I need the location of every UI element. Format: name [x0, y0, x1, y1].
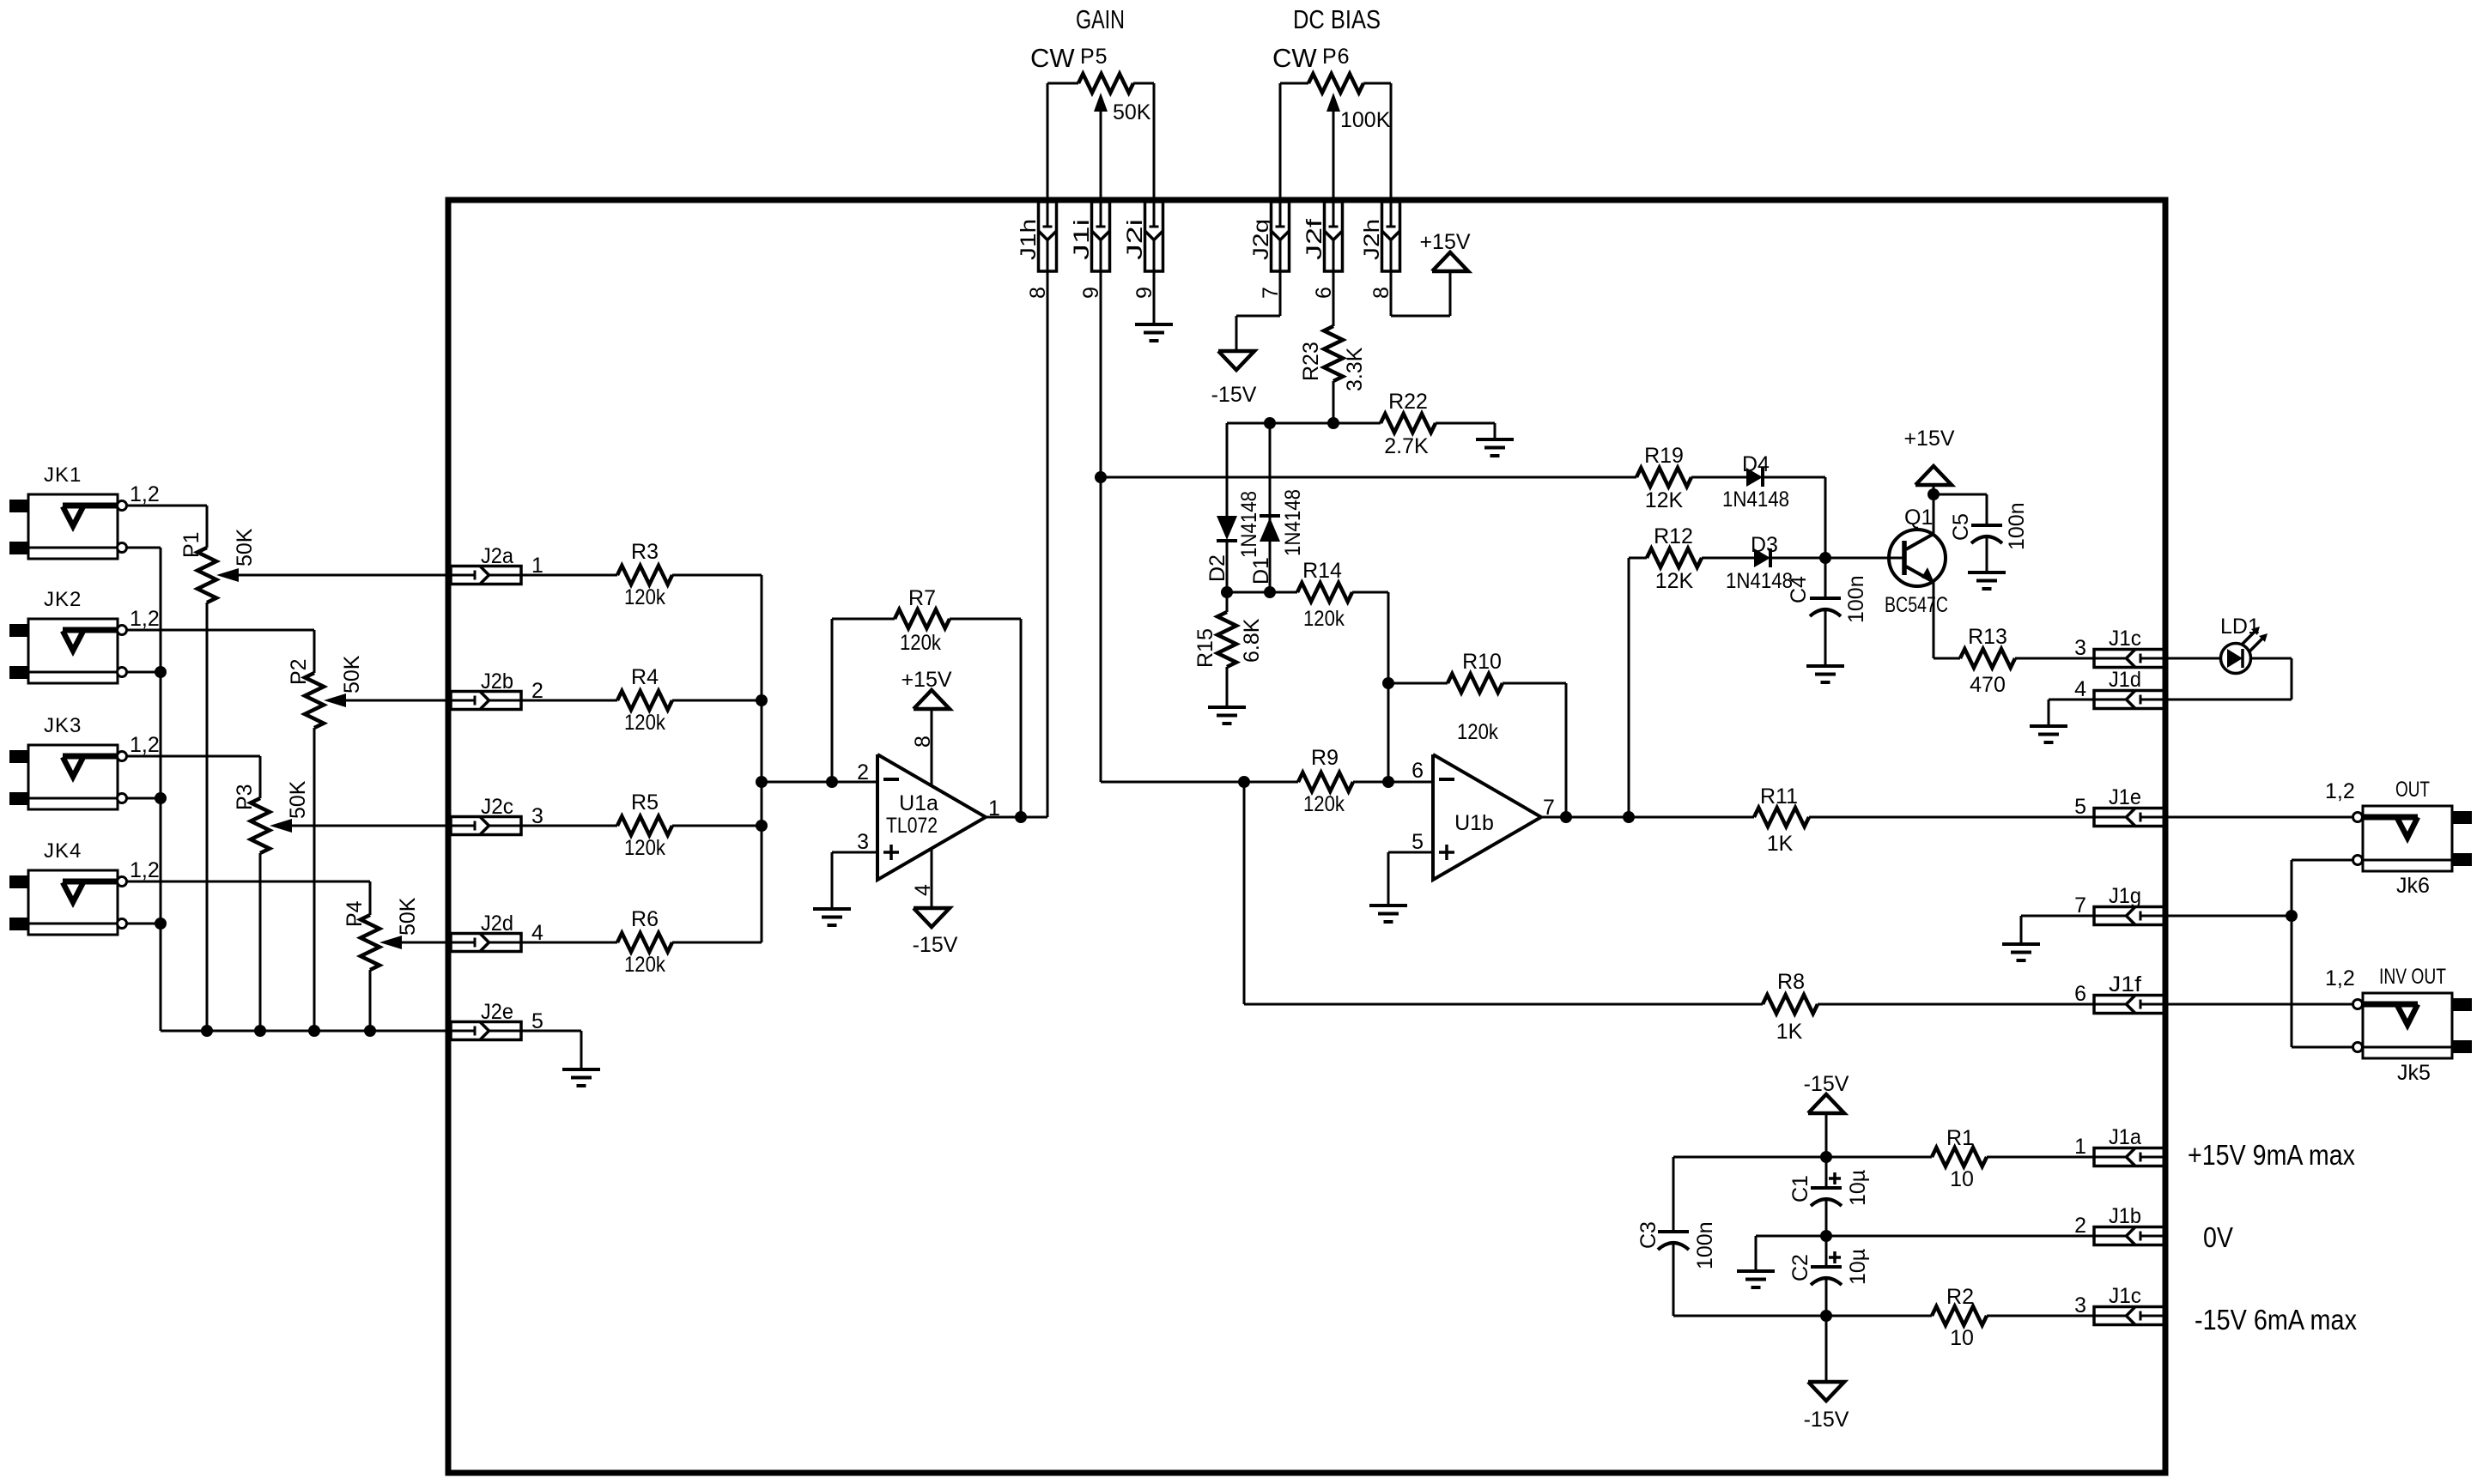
transistor Q1	[1885, 506, 1948, 617]
pin 5 label U1b	[1411, 830, 1424, 854]
svg-text:1N4148: 1N4148	[1281, 489, 1305, 556]
svg-text:120k: 120k	[624, 711, 665, 735]
svg-text:C3: C3	[1636, 1221, 1660, 1249]
ground below U1b pin5	[1369, 906, 1407, 922]
wire U1a pin2	[762, 781, 877, 784]
junction dot R4 node	[756, 694, 768, 706]
junction dot U1b pin6 node	[1382, 776, 1394, 788]
svg-text:DC BIAS: DC BIAS	[1293, 4, 1381, 34]
resistor R7	[832, 586, 1021, 655]
connector J2c	[451, 795, 543, 835]
wire 0V rail row	[1756, 1235, 2094, 1238]
wire C2 to -15V rail	[1825, 1279, 1828, 1316]
connector J1f	[2074, 972, 2164, 1014]
svg-text:P1: P1	[179, 531, 203, 558]
wire Q1 emitter	[1933, 582, 1935, 658]
jack JK4	[9, 839, 160, 935]
svg-text:C4: C4	[1787, 576, 1811, 603]
potentiometer P6	[1308, 45, 1391, 132]
svg-text:J2f: J2f	[1302, 219, 1326, 260]
junction dot P2 bus	[308, 1025, 320, 1037]
svg-text:D4: D4	[1742, 452, 1770, 476]
wire R14 to vertical	[1352, 592, 1388, 782]
wire J2f to R23	[1333, 271, 1335, 326]
wire U1a pin8 supply	[931, 709, 933, 785]
svg-text:100n: 100n	[2005, 502, 2029, 550]
wire R12 lead	[1629, 557, 1647, 560]
svg-text:JK4: JK4	[44, 839, 82, 863]
svg-text:1,2: 1,2	[2325, 966, 2355, 990]
wire R11 to J1e	[1809, 816, 2094, 819]
svg-text:CW: CW	[1272, 43, 1317, 73]
svg-text:50K: 50K	[1113, 100, 1151, 124]
resistor R1	[1932, 1126, 1987, 1191]
svg-text:P5: P5	[1080, 45, 1108, 69]
wire D3 to base node	[1770, 557, 1904, 560]
junction dot collector/C5	[1928, 488, 1940, 500]
ground below U1a pin3	[813, 909, 851, 925]
wire diode node to R14	[1227, 591, 1297, 594]
wire U1a pin3	[832, 852, 877, 908]
connector J2h	[1360, 202, 1400, 299]
resistor R11	[1754, 784, 1809, 856]
wire to R8	[1244, 782, 1763, 1004]
svg-text:12K: 12K	[1655, 569, 1694, 593]
junction dot J1i/R19	[1095, 471, 1107, 483]
diode D4	[1722, 452, 1789, 512]
wire J2a to R3	[521, 574, 617, 577]
svg-text:1N4148: 1N4148	[1726, 569, 1793, 593]
power +15V (U1a)	[901, 668, 951, 709]
svg-text:R6: R6	[631, 907, 659, 931]
svg-text:470: 470	[1970, 673, 2006, 697]
wire Q1 collector	[1933, 485, 1935, 534]
svg-text:R7: R7	[908, 586, 936, 610]
wire node to R19	[1101, 476, 1636, 479]
svg-text:J1i: J1i	[1070, 219, 1094, 260]
junction dot R3-R6 node	[756, 776, 768, 788]
power -15V top	[1804, 1072, 1849, 1113]
junction dot R12/output	[1623, 811, 1635, 823]
svg-text:R3: R3	[631, 540, 659, 564]
pin 4 label U1a	[911, 884, 935, 896]
svg-text:120k: 120k	[1457, 720, 1498, 744]
svg-text:R2: R2	[1946, 1285, 1974, 1309]
ground below J1d	[2030, 726, 2067, 742]
junction dot sleeve bus	[2286, 910, 2298, 922]
svg-text:6: 6	[2074, 982, 2086, 1006]
svg-text:3.3K: 3.3K	[1343, 347, 1367, 391]
connector J2b	[451, 669, 543, 710]
ground below J2e	[562, 1069, 600, 1086]
svg-text:12K: 12K	[1645, 488, 1684, 512]
svg-text:R8: R8	[1777, 970, 1805, 994]
svg-text:J1e: J1e	[2109, 785, 2141, 809]
svg-text:J2a: J2a	[481, 544, 513, 568]
wire J1e to Jk6	[2164, 816, 2352, 819]
svg-text:JK2: JK2	[44, 588, 82, 611]
power +15V (Q1)	[1903, 427, 1954, 485]
ground below C4	[1806, 666, 1844, 682]
svg-text:J1a: J1a	[2109, 1125, 2141, 1149]
junction dot JK4 sleeve	[155, 918, 167, 930]
svg-text:7: 7	[2074, 893, 2086, 918]
svg-text:J1c: J1c	[2109, 1284, 2141, 1308]
svg-text:1K: 1K	[1767, 832, 1794, 856]
diode D3	[1726, 533, 1793, 593]
svg-text:1K: 1K	[1776, 1020, 1803, 1044]
junction dot R23/R22	[1327, 417, 1339, 429]
wire R12 to D3	[1702, 557, 1754, 560]
svg-text:P6: P6	[1322, 45, 1351, 69]
wire Jk6 sleeve	[2292, 860, 2352, 1047]
junction dot JK2 sleeve	[155, 666, 167, 678]
pin 6 label U1b	[1411, 759, 1424, 783]
svg-text:5: 5	[2074, 795, 2086, 819]
junction dot P4 bus	[364, 1025, 376, 1037]
resistor R2	[1932, 1285, 1987, 1350]
capacitor C3	[1636, 1157, 1717, 1316]
wire U1b output	[1541, 816, 1754, 819]
op-amp U1a	[877, 754, 986, 880]
wire J2c to R5	[521, 825, 617, 827]
resistor R15	[1193, 592, 1264, 706]
svg-text:1,2: 1,2	[130, 733, 160, 757]
wire R19 to D4	[1691, 476, 1746, 479]
connector J1b	[2074, 1204, 2164, 1245]
resistor R5	[617, 790, 672, 860]
junction dot P1 bus	[201, 1025, 213, 1037]
junction dot P3 bus	[254, 1025, 266, 1037]
svg-text:-15V: -15V	[1804, 1408, 1849, 1432]
junction dot R9 node	[1238, 776, 1250, 788]
svg-text:4: 4	[911, 884, 935, 896]
junction dot R10 left node	[1382, 677, 1394, 689]
wire JK4 sleeve	[127, 923, 161, 925]
svg-text:1: 1	[2074, 1135, 2086, 1159]
jack Jk5 INV OUT	[2325, 965, 2472, 1085]
wire R4 to node	[672, 700, 762, 702]
resistor R3	[617, 540, 672, 609]
svg-text:120k: 120k	[1303, 607, 1345, 631]
svg-text:R13: R13	[1968, 625, 2007, 649]
wire U1b pin5	[1388, 852, 1433, 904]
svg-text:1,2: 1,2	[130, 482, 160, 506]
svg-text:3: 3	[2074, 636, 2086, 660]
svg-text:P4: P4	[343, 900, 367, 927]
wire P5 left lead	[1047, 83, 1078, 202]
LED LD1	[2220, 615, 2267, 674]
svg-text:U1a: U1a	[899, 791, 938, 815]
svg-text:J2g: J2g	[1249, 219, 1273, 260]
wire P6 wiper	[1333, 108, 1335, 202]
wire Jk5 sleeve	[2292, 1046, 2352, 1049]
junction dot D2/R15	[1221, 586, 1233, 598]
label GAIN	[1076, 4, 1125, 34]
power -15V (U1a)	[913, 908, 958, 957]
junction dot JK3 sleeve	[155, 792, 167, 804]
wire D4 to node	[1763, 477, 1825, 558]
resistor R14	[1297, 559, 1352, 631]
ground below C5	[1968, 572, 2006, 589]
svg-text:0V: 0V	[2203, 1221, 2233, 1253]
svg-text:120k: 120k	[624, 953, 665, 977]
wire P3 bottom	[259, 853, 262, 1031]
wire J2b to R4	[521, 700, 617, 702]
ground below J1g	[2002, 944, 2040, 960]
wire J1c to LED	[2164, 657, 2221, 660]
ground below J2i	[1135, 324, 1173, 341]
wire R7 right leg	[1020, 619, 1023, 817]
connector J1c (power)	[2074, 1284, 2164, 1325]
junction dot R7/pin2	[826, 776, 838, 788]
svg-text:Jk5: Jk5	[2397, 1061, 2431, 1085]
svg-text:P3: P3	[233, 784, 257, 810]
wire P2 bottom	[313, 728, 316, 1031]
jack JK2	[9, 588, 160, 683]
wire JK2 tip to P2	[127, 630, 314, 673]
junction dot D1 top	[1264, 417, 1276, 429]
svg-text:1,2: 1,2	[130, 858, 160, 882]
svg-text:JK3: JK3	[44, 714, 82, 737]
svg-text:D1: D1	[1249, 557, 1273, 585]
connector J2g	[1249, 202, 1290, 299]
ground power section	[1737, 1271, 1775, 1287]
svg-text:-15V: -15V	[913, 933, 958, 957]
svg-text:+15V: +15V	[901, 668, 951, 692]
connector J2a	[451, 544, 543, 585]
svg-text:TL072: TL072	[886, 814, 938, 838]
svg-text:6: 6	[1411, 759, 1424, 783]
label CW (P6)	[1272, 43, 1317, 73]
wire P1 bottom	[206, 603, 209, 1031]
resistor R12	[1647, 524, 1702, 593]
junction dot rail mid	[1820, 1230, 1832, 1242]
wire JK3 tip to P3	[127, 756, 260, 798]
wire R2 to J1c	[1987, 1315, 2094, 1317]
resistor R13	[1934, 625, 2015, 697]
svg-text:J1b: J1b	[2109, 1204, 2141, 1228]
svg-text:R10: R10	[1462, 650, 1502, 674]
svg-text:D3: D3	[1751, 533, 1778, 557]
svg-text:10: 10	[1950, 1326, 1974, 1350]
capacitor C4	[1787, 558, 1868, 623]
svg-text:U1b: U1b	[1454, 811, 1494, 835]
svg-text:R23: R23	[1299, 342, 1323, 381]
pin 8 label U1a	[911, 736, 935, 748]
svg-text:R4: R4	[631, 665, 659, 689]
svg-text:C2: C2	[1788, 1254, 1812, 1281]
svg-text:J1h: J1h	[1017, 219, 1041, 260]
resistor R4	[617, 665, 672, 735]
svg-text:10µ: 10µ	[1846, 1249, 1870, 1285]
power +15V (J2h)	[1419, 230, 1470, 271]
svg-text:R15: R15	[1193, 628, 1217, 668]
resistor R19	[1636, 444, 1691, 512]
wire J1g to output node	[2164, 915, 2292, 918]
junction dot R7/output	[1015, 811, 1027, 823]
svg-text:R11: R11	[1760, 784, 1798, 809]
wire R22 to ground	[1436, 423, 1495, 439]
resistor R22	[1381, 390, 1436, 458]
svg-text:GAIN: GAIN	[1076, 4, 1125, 34]
pin 7 label U1b	[1543, 796, 1555, 820]
label +15V 9mA max	[2188, 1139, 2355, 1171]
connector J1h	[1017, 202, 1057, 299]
svg-text:J2e: J2e	[481, 1000, 513, 1024]
junction dot rail bottom	[1820, 1310, 1832, 1322]
svg-text:8: 8	[911, 736, 935, 748]
svg-text:50K: 50K	[396, 897, 420, 936]
wire LED loop	[2164, 658, 2292, 700]
connector J1i	[1070, 202, 1110, 299]
connector J2i	[1123, 202, 1163, 299]
connector J1c (LED)	[2074, 627, 2164, 668]
junction dot base node	[1819, 552, 1831, 564]
wire C4 to ground	[1824, 610, 1827, 664]
wire R1 to J1a	[1987, 1156, 2094, 1159]
junction dot rail top	[1820, 1151, 1832, 1163]
wire R8 to J1f	[1818, 1003, 2094, 1006]
connector J1e	[2074, 785, 2164, 827]
svg-text:100K: 100K	[1340, 108, 1391, 132]
jack JK1	[9, 463, 160, 559]
wire J2g to -15V	[1236, 271, 1280, 351]
svg-text:1N4148: 1N4148	[1237, 491, 1261, 558]
label CW (P5)	[1030, 43, 1075, 73]
junction dot R5 node	[756, 820, 768, 832]
svg-text:-15V 6mA max: -15V 6mA max	[2195, 1304, 2357, 1336]
wire bias node row	[1227, 422, 1381, 425]
svg-text:120k: 120k	[900, 631, 941, 655]
svg-text:P2: P2	[287, 658, 311, 685]
power -15V (J2g)	[1211, 351, 1257, 407]
svg-text:+15V: +15V	[1419, 230, 1470, 254]
svg-text:6.8K: 6.8K	[1240, 618, 1264, 663]
potentiometer P3	[233, 780, 310, 853]
capacitor C5	[1949, 502, 2029, 550]
svg-text:R5: R5	[631, 790, 659, 815]
svg-text:100n: 100n	[1693, 1221, 1717, 1269]
diode D1	[1249, 423, 1305, 592]
label -15V 6mA max	[2195, 1304, 2357, 1336]
wire C5 to ground	[1986, 537, 1988, 572]
capacitor C2	[1788, 1236, 1870, 1285]
pin 2 label U1a	[857, 760, 869, 784]
connector J1g	[2074, 884, 2164, 925]
svg-text:INV OUT: INV OUT	[2379, 965, 2446, 989]
potentiometer P4	[343, 897, 420, 970]
svg-text:Jk6: Jk6	[2396, 874, 2430, 898]
potentiometer P5	[1078, 45, 1151, 124]
junction dot R10/output	[1560, 811, 1572, 823]
label DC BIAS	[1293, 4, 1381, 34]
capacitor C1	[1788, 1157, 1870, 1206]
wire R5 to node	[672, 825, 762, 827]
svg-text:R1: R1	[1946, 1126, 1974, 1150]
svg-text:1,2: 1,2	[2325, 779, 2355, 803]
diode D2	[1205, 423, 1261, 592]
wire J2h to +15V	[1391, 271, 1450, 316]
wire J2d to R6	[521, 942, 617, 944]
svg-text:C5: C5	[1949, 513, 1973, 541]
svg-text:Q1: Q1	[1904, 506, 1933, 530]
ground below R15	[1208, 707, 1246, 724]
svg-text:J2h: J2h	[1360, 219, 1384, 260]
potentiometer P1	[179, 528, 257, 603]
connector J1d	[2074, 668, 2164, 709]
wire C1 to 0V rail	[1825, 1200, 1828, 1236]
svg-text:OUT: OUT	[2395, 778, 2430, 802]
power -15V bottom	[1804, 1382, 1849, 1432]
svg-text:J1d: J1d	[2109, 668, 2141, 692]
pin 1 label U1a	[988, 797, 1000, 821]
wire R7 left leg	[831, 619, 834, 782]
wire J1i down	[1100, 271, 1102, 782]
wire J1g to ground	[2021, 916, 2094, 942]
svg-text:JK1: JK1	[44, 463, 82, 487]
connector J2d	[451, 912, 543, 952]
connector J2f	[1302, 202, 1343, 299]
svg-text:CW: CW	[1030, 43, 1075, 73]
resistor R10	[1388, 650, 1503, 744]
svg-text:J1f: J1f	[2109, 972, 2141, 996]
wire to -15V bottom	[1825, 1316, 1828, 1382]
jack JK3	[9, 714, 160, 809]
wire -15V rail row	[1673, 1315, 1932, 1317]
wire JK3 sleeve	[127, 797, 161, 800]
svg-text:100n: 100n	[1844, 575, 1868, 623]
wire sleeve bus vertical	[127, 548, 161, 1031]
wire JK2 sleeve	[127, 671, 161, 674]
svg-text:50K: 50K	[340, 655, 364, 694]
wire vertical from R12	[1628, 558, 1630, 817]
svg-text:4: 4	[2074, 677, 2086, 701]
op-amp U1b	[1433, 754, 1541, 880]
svg-text:R19: R19	[1644, 444, 1684, 468]
wire JK4 tip to P4	[127, 881, 370, 915]
wire P5 right lead	[1133, 83, 1154, 202]
wire P4 wiper to J2d	[402, 942, 451, 944]
wire R10 to output	[1503, 683, 1566, 817]
svg-text:3: 3	[857, 830, 869, 854]
svg-text:C1: C1	[1788, 1175, 1812, 1202]
connector J1a	[2074, 1125, 2164, 1166]
ground below R22	[1476, 439, 1514, 456]
wire R9 to U1b	[1353, 781, 1433, 784]
svg-text:R22: R22	[1388, 390, 1428, 414]
wire P4 bottom	[369, 970, 372, 1031]
wire R6 to node	[672, 942, 762, 944]
wire P3 wiper to J2c	[292, 825, 451, 827]
jack Jk6 OUT	[2325, 778, 2472, 898]
wire +15V rail row	[1673, 1156, 1932, 1159]
resistor R9	[1244, 746, 1353, 816]
svg-text:10µ: 10µ	[1846, 1170, 1870, 1206]
resistor R8	[1763, 970, 1818, 1044]
wire ground bus	[161, 1030, 451, 1033]
svg-text:D2: D2	[1205, 554, 1229, 582]
svg-text:2: 2	[2074, 1214, 2086, 1238]
svg-text:50K: 50K	[233, 528, 257, 566]
wire U1a pin4 supply	[931, 848, 933, 908]
svg-text:J2d: J2d	[481, 912, 513, 936]
junction dot D1 bottom	[1264, 586, 1276, 598]
svg-text:R9: R9	[1311, 746, 1339, 770]
wire JK1 tip to P1	[127, 506, 207, 548]
svg-text:J1g: J1g	[2109, 884, 2141, 908]
svg-text:10: 10	[1950, 1167, 1974, 1191]
